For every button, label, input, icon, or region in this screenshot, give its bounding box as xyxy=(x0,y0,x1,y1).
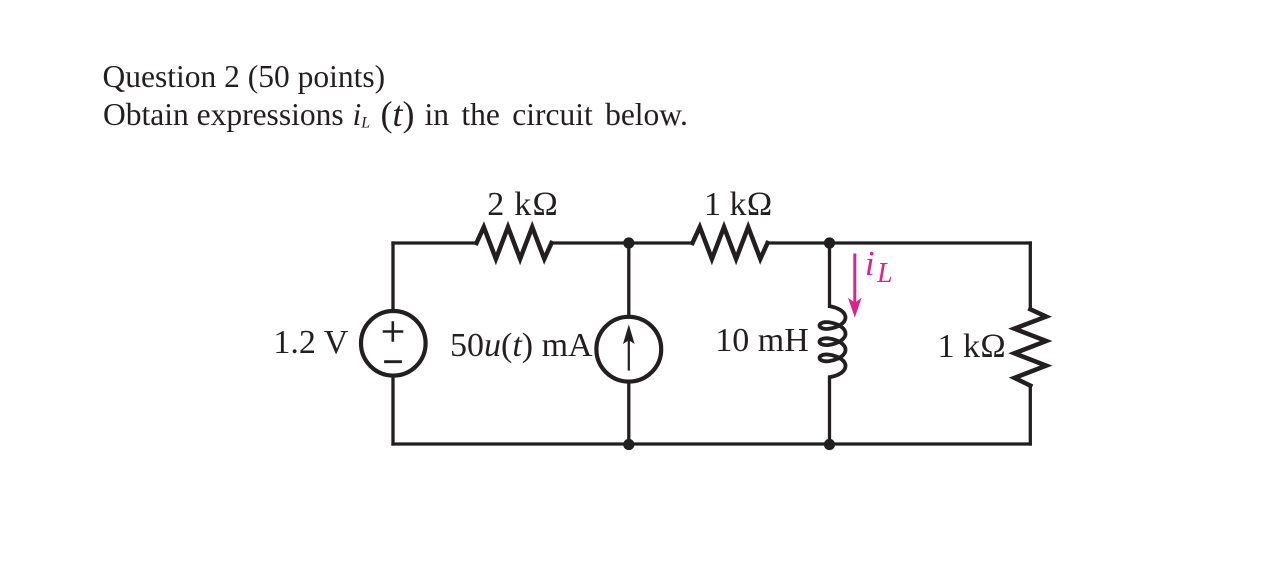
label 1 kOhm right xyxy=(938,328,1007,366)
title line 2 part b xyxy=(425,97,688,133)
resistor R2 1 kOhm top xyxy=(693,227,768,259)
title line 1 xyxy=(103,59,386,95)
wire inductor branch upper xyxy=(828,243,831,306)
title line 2 part a xyxy=(103,97,344,133)
label 50u(t) mA xyxy=(450,327,593,365)
wire top-right segment xyxy=(768,241,1031,244)
wire left branch upper xyxy=(391,243,394,311)
resistor R1 2 kOhm xyxy=(477,227,552,259)
current source I1 50u(t) mA xyxy=(596,317,661,382)
label 2 kOhm xyxy=(487,186,559,224)
inductor L1 10 mH xyxy=(820,306,846,377)
wire bottom segment xyxy=(393,442,1030,445)
wire top-middle segment xyxy=(552,241,693,244)
current arrow iL pink xyxy=(848,255,862,318)
label 10 mH xyxy=(715,322,809,360)
wire right branch upper xyxy=(1029,243,1032,309)
label iL pink xyxy=(865,244,893,290)
node junction bottom current source xyxy=(623,439,634,450)
wire left branch lower xyxy=(391,376,394,444)
node junction bottom inductor xyxy=(824,439,835,450)
label 1.2 V xyxy=(273,324,348,362)
wire current-source branch lower xyxy=(627,382,630,444)
wire inductor branch lower xyxy=(828,377,831,444)
wire top-left segment xyxy=(393,241,477,244)
title line 2 math (t) xyxy=(381,93,415,135)
wire current-source branch upper xyxy=(627,243,630,317)
node junction top-left of current source xyxy=(623,237,634,248)
node junction top inductor xyxy=(824,237,835,248)
title line 2 math iL xyxy=(353,97,371,133)
resistor R3 1 kOhm right xyxy=(1014,309,1046,385)
voltage source V1 1.2V xyxy=(361,311,426,376)
wire right branch lower xyxy=(1029,386,1032,444)
label 1 kOhm top xyxy=(704,186,773,224)
